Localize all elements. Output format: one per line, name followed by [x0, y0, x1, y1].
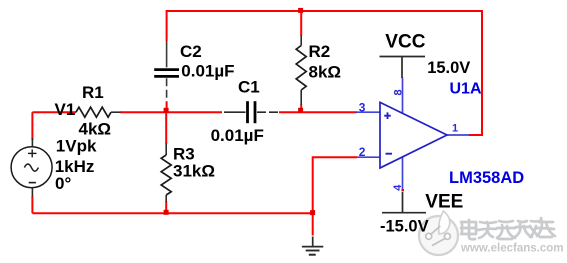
svg-text:3: 3 — [359, 100, 366, 114]
svg-text:2: 2 — [359, 145, 366, 159]
svg-text:VEE: VEE — [425, 191, 463, 212]
wire: pin 2 feedback (horizontal + vertical to ground node) — [313, 157, 357, 213]
svg-text:15.0V: 15.0V — [427, 59, 470, 77]
svg-text:31kΩ: 31kΩ — [173, 162, 215, 181]
wire: R1 to C1 (through node A) — [120, 111, 222, 113]
op-amp U1 pin 2 stub — [357, 156, 380, 158]
source V1 lead top — [31, 138, 33, 147]
svg-text:0.01µF: 0.01µF — [211, 126, 264, 145]
op-amp U1 pin 1 output stub — [447, 134, 469, 136]
wire: feedback loop top/right (node output to C2 top) — [167, 11, 482, 135]
watermark logo circle — [419, 211, 458, 255]
wire: R3 bottom stub — [165, 201, 167, 213]
wire: ground stub — [312, 213, 314, 235]
wire: C1 to op-amp pin 3 (through node B) — [279, 111, 357, 113]
node A: junction R1/C2/R3 — [164, 108, 169, 113]
op-amp U1A body — [380, 102, 447, 168]
wire: bottom rail — [32, 212, 312, 214]
wire: left vertical V1 bottom — [31, 196, 33, 213]
op-amp U1 pin 4 stub — [402, 157, 404, 190]
resistor R1 — [76, 107, 121, 117]
svg-text:4kΩ: 4kΩ — [79, 120, 112, 139]
svg-text:www.elecfans.com: www.elecfans.com — [460, 243, 563, 255]
source V1 body — [11, 147, 52, 188]
watermark chinese text (stylized strokes) — [461, 218, 555, 239]
svg-text:U1A: U1A — [450, 81, 482, 98]
svg-text:LM358AD: LM358AD — [449, 169, 524, 187]
node: junction ground/bottom rail — [310, 210, 315, 215]
wire: left vertical V1 top — [31, 112, 33, 140]
wire: R3 top stub — [165, 112, 167, 144]
svg-text:C1: C1 — [238, 78, 260, 97]
op-amp U1 pin 8 stub — [402, 78, 404, 114]
wire: R2 bottom stub — [300, 105, 302, 113]
wire: V1 to R1 (left segment of mid rail) — [32, 111, 76, 113]
svg-text:0.01µF: 0.01µF — [181, 62, 234, 81]
capacitor C2 — [154, 41, 179, 102]
node B: junction C1/R2/pin3 — [298, 108, 303, 113]
svg-text:-15.0V: -15.0V — [380, 218, 429, 236]
svg-text:R2: R2 — [309, 42, 331, 61]
junction: top wire to R2 — [298, 8, 303, 13]
ground — [302, 237, 323, 255]
svg-text:C2: C2 — [180, 42, 202, 61]
wire: output stub red — [469, 134, 482, 136]
source V1 lead bottom — [31, 188, 33, 197]
node: junction R3 bottom rail — [164, 210, 169, 215]
wire: C2 bottom stub — [166, 102, 168, 113]
VEE power symbol — [382, 189, 426, 213]
wire: R2 top stub — [300, 11, 302, 36]
op-amp U1 pin 3 stub — [356, 111, 380, 113]
svg-text:R1: R1 — [82, 83, 104, 102]
svg-text:0°: 0° — [55, 174, 71, 193]
svg-text:1Vpk: 1Vpk — [56, 137, 97, 156]
svg-text:8: 8 — [393, 89, 405, 95]
capacitor C1 — [224, 101, 278, 123]
VCC power symbol — [380, 57, 426, 79]
svg-text:VCC: VCC — [385, 31, 425, 52]
resistor R2 — [296, 36, 306, 106]
resistor R3 — [161, 144, 171, 202]
svg-text:V1: V1 — [55, 100, 76, 119]
svg-text:1: 1 — [452, 123, 458, 135]
svg-text:8kΩ: 8kΩ — [309, 63, 342, 82]
